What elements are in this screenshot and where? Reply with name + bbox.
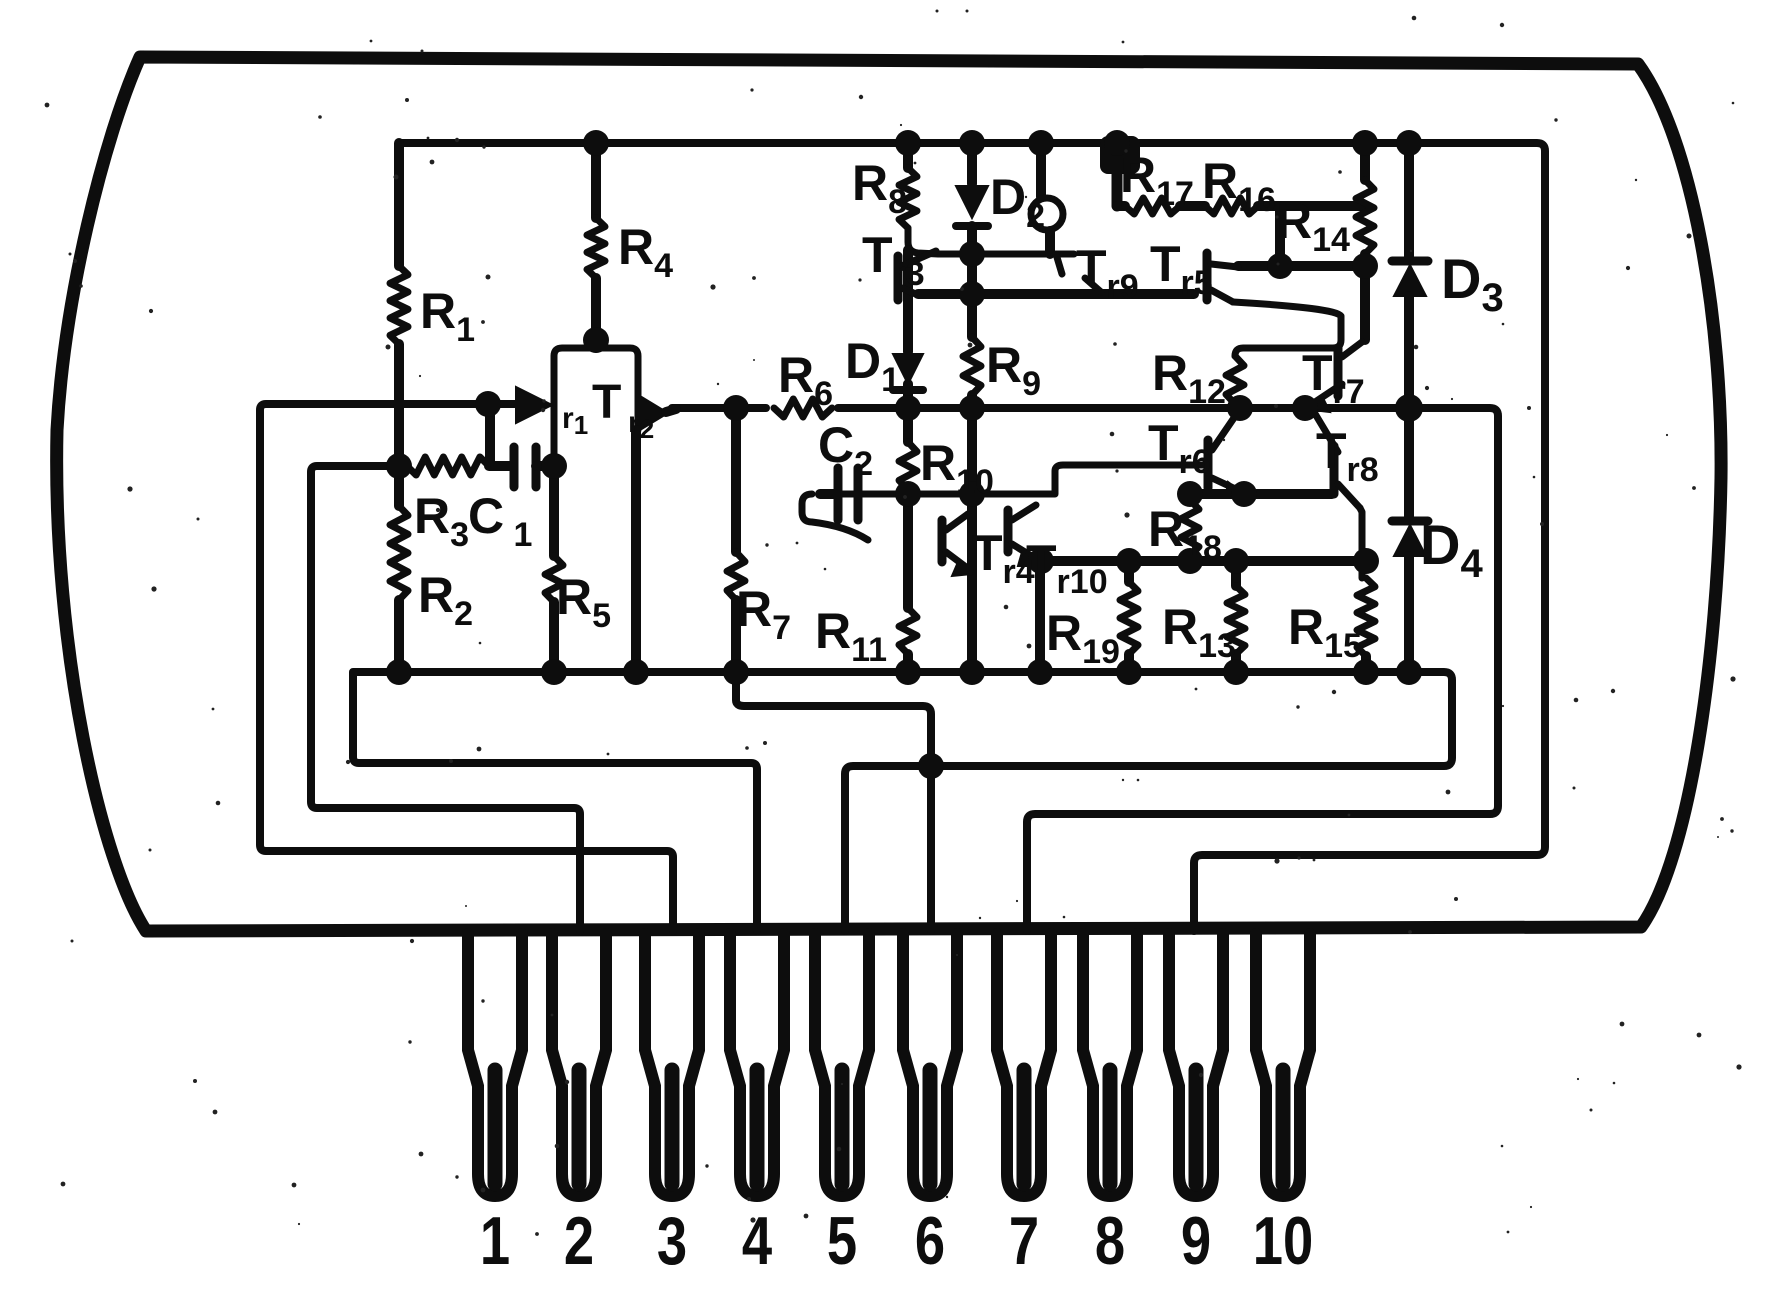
svg-text:7: 7 (1009, 1203, 1039, 1279)
svg-text:5: 5 (827, 1203, 857, 1279)
svg-text:8: 8 (1095, 1203, 1125, 1279)
svg-text:10: 10 (1253, 1203, 1314, 1279)
svg-text:3: 3 (657, 1203, 687, 1279)
svg-text:1: 1 (480, 1203, 510, 1279)
svg-text:6: 6 (915, 1203, 945, 1279)
svg-text:9: 9 (1181, 1203, 1211, 1279)
svg-text:4: 4 (742, 1203, 772, 1279)
svg-text:2: 2 (564, 1203, 594, 1279)
svg-text:T: T (592, 376, 621, 429)
